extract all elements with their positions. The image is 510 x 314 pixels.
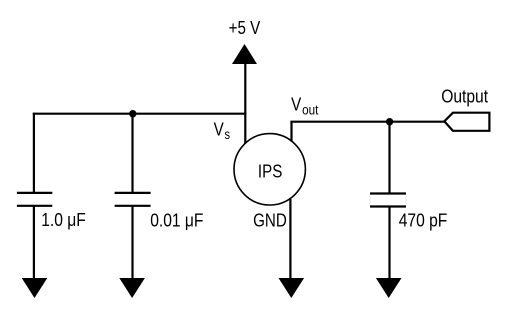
capacitor C1 plates (1.0 uF) — [17, 193, 52, 206]
wire Vout horizontal to output — [290, 121, 444, 123]
IPS sensor body U1 — [234, 134, 305, 205]
ground arrow under IPS — [279, 278, 305, 298]
ground arrow under C1 — [22, 278, 48, 298]
svg-text:Output: Output — [441, 86, 488, 107]
svg-text:0.01 μF: 0.01 μF — [150, 210, 203, 231]
label Vout — [291, 94, 319, 118]
svg-text:out: out — [302, 102, 319, 118]
node junction dot on Vout net — [386, 118, 393, 125]
svg-text:1.0 μF: 1.0 μF — [41, 210, 86, 231]
svg-text:470 pF: 470 pF — [399, 210, 448, 231]
ground arrow under C3 — [376, 278, 402, 298]
svg-text:IPS: IPS — [258, 161, 282, 182]
svg-text:s: s — [225, 127, 231, 142]
output off-page connector — [444, 113, 489, 131]
capacitor C3 plates (470 pF) — [370, 194, 406, 207]
capacitor C2 top lead wire — [131, 113, 133, 193]
+5V supply arrow — [232, 44, 257, 64]
node junction dot on bus — [129, 110, 136, 117]
capacitor C2 bottom lead wire — [131, 206, 133, 280]
label Vs — [214, 119, 230, 142]
svg-text:V: V — [214, 119, 225, 140]
wire +5V down to IPS Vs pin — [244, 63, 246, 144]
ground arrow under C2 — [119, 278, 145, 298]
capacitor C2 plates (0.01 uF) — [115, 193, 151, 206]
capacitor C3 bottom lead wire — [388, 207, 390, 281]
wire IPS GND pin down — [289, 198, 291, 280]
wire IPS Vout pin up — [290, 122, 292, 142]
capacitor C1 top lead wire — [33, 113, 35, 193]
svg-text:+5 V: +5 V — [229, 18, 261, 39]
svg-text:V: V — [291, 94, 302, 115]
capacitor C3 top lead wire — [388, 122, 390, 194]
wire bypass bus (horizontal) — [33, 113, 247, 115]
capacitor C1 bottom lead wire — [33, 206, 35, 280]
svg-text:GND: GND — [253, 210, 287, 231]
